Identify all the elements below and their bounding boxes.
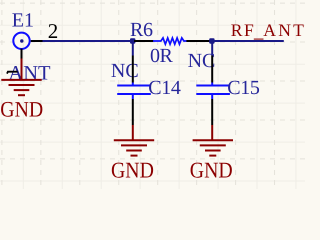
resistor R6 pin 2 [186,40,209,42]
wire junction B to RF_ANT [210,40,284,42]
svg-text:0R: 0R [150,45,174,67]
svg-text:ANT: ANT [263,20,305,40]
svg-text:RF: RF [231,20,256,40]
antenna pad E1 center dot [20,39,23,42]
pin 1 of E1 (vertical) [21,49,23,59]
pin number 1 (rotated) [7,72,18,74]
svg-text:R6: R6 [130,19,153,41]
svg-text:GND: GND [0,96,43,121]
svg-text:NC: NC [111,60,139,82]
power ground symbol at C14 [114,125,154,156]
svg-text:2: 2 [48,19,59,43]
svg-text:E1: E1 [12,9,34,31]
resistor R6 body (zigzag) [153,38,187,44]
svg-text:GND: GND [111,158,154,183]
svg-text:C14: C14 [148,77,181,99]
wire E1 to junction A [43,40,134,42]
capacitor C15 body [196,83,230,100]
junction B (node at C15/RF_ANT) [209,38,214,43]
resistor R6 pin 1 [134,40,154,42]
capacitor C14 body [117,83,151,100]
capacitor C15 pin 1 [211,56,213,83]
junction A (node at R6/C14) [130,38,135,43]
svg-text:GND: GND [190,158,233,183]
wire junction B down to C15 [211,41,213,56]
power ground symbol at C15 [193,125,233,156]
svg-text:C15: C15 [227,77,260,99]
pin 2 of E1 [31,40,43,42]
wire junction A down to C14 [132,41,134,56]
capacitor C14 pin 1 [132,56,134,83]
power ground symbol at E1 [1,59,41,96]
capacitor C14 pin 2 [132,99,134,125]
svg-text:ANT: ANT [8,63,51,85]
antenna pad E1 body (circle) [13,33,29,49]
capacitor C15 pin 2 [211,99,213,125]
